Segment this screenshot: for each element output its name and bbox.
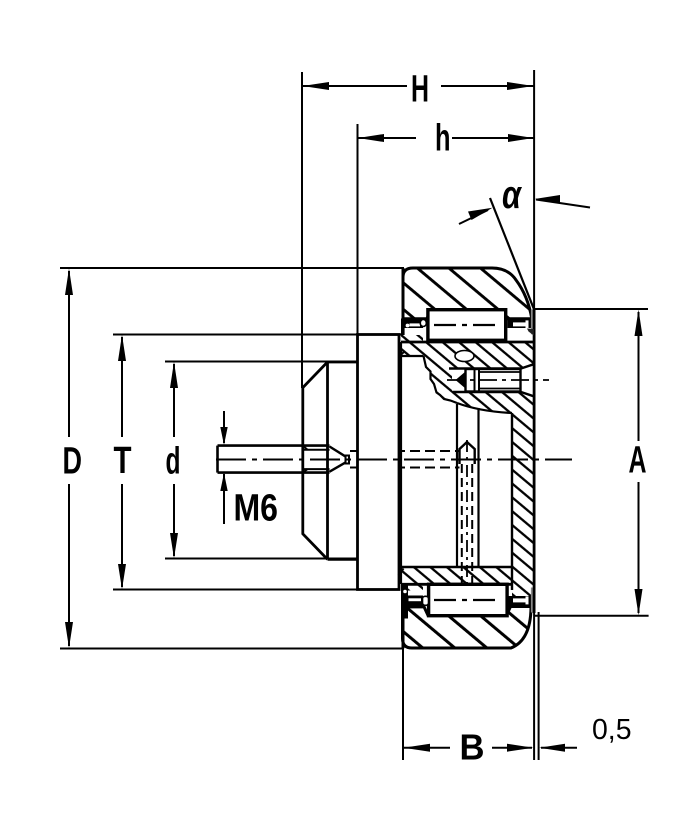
svg-text:D: D <box>63 441 83 483</box>
svg-text:B: B <box>460 727 485 768</box>
svg-text:h: h <box>435 118 451 160</box>
svg-text:A: A <box>629 440 647 482</box>
svg-text:M6: M6 <box>234 488 279 530</box>
svg-text:α: α <box>502 173 523 217</box>
svg-text:T: T <box>114 440 132 482</box>
svg-text:d: d <box>166 441 181 483</box>
svg-text:H: H <box>411 69 429 111</box>
svg-text:0,5: 0,5 <box>592 714 632 746</box>
